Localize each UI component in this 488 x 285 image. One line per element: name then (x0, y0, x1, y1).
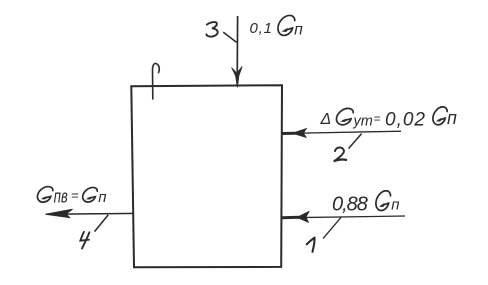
arrowhead stream 2 (293, 129, 307, 138)
thick shaft stream 1 (282, 216, 299, 219)
wire: stream 3 vertical line (236, 16, 238, 84)
svg-text:=: = (374, 112, 381, 126)
label 3 (206, 22, 217, 37)
G of 0,1 Gп (278, 15, 295, 35)
arrowhead stream 3 (232, 66, 243, 87)
svg-text:0,88: 0,88 (332, 194, 368, 216)
tick for label 2 (349, 134, 362, 149)
svg-text:=: = (71, 188, 79, 203)
svg-text:Δ: Δ (320, 111, 332, 128)
tick for label 1 (323, 217, 341, 238)
thick shaft stream 2 (283, 132, 296, 135)
G of Gп (83, 187, 98, 202)
box (apparatus rectangle) (131, 85, 282, 267)
G of Gпв (37, 187, 52, 203)
svg-text:п: п (294, 22, 303, 39)
svg-text:0,02: 0,02 (385, 110, 426, 131)
svg-text:0,1: 0,1 (250, 20, 273, 37)
arrowhead stream 4 (46, 209, 73, 217)
wire: stream 4 horizontal line (46, 212, 133, 215)
value label: G ut (336, 108, 353, 124)
tick for label 3 (223, 32, 236, 42)
arrowhead stream 1 (297, 212, 309, 223)
wire: stream 2 horizontal line (283, 131, 401, 133)
svg-text:п: п (391, 196, 399, 213)
G of 0,02 Gп (433, 107, 447, 125)
svg-text:пв: пв (54, 187, 68, 207)
tick for label 4 (95, 215, 109, 232)
svg-text:ут: ут (353, 114, 373, 130)
vent hook on box top (152, 63, 159, 99)
label 4 (80, 232, 89, 249)
G of 0,88 Gп (376, 191, 391, 211)
wire: stream 1 horizontal line (283, 216, 406, 218)
label 2 (335, 147, 347, 160)
svg-text:п: п (98, 189, 106, 206)
svg-text:п: п (447, 108, 457, 128)
label 1 (307, 238, 315, 252)
